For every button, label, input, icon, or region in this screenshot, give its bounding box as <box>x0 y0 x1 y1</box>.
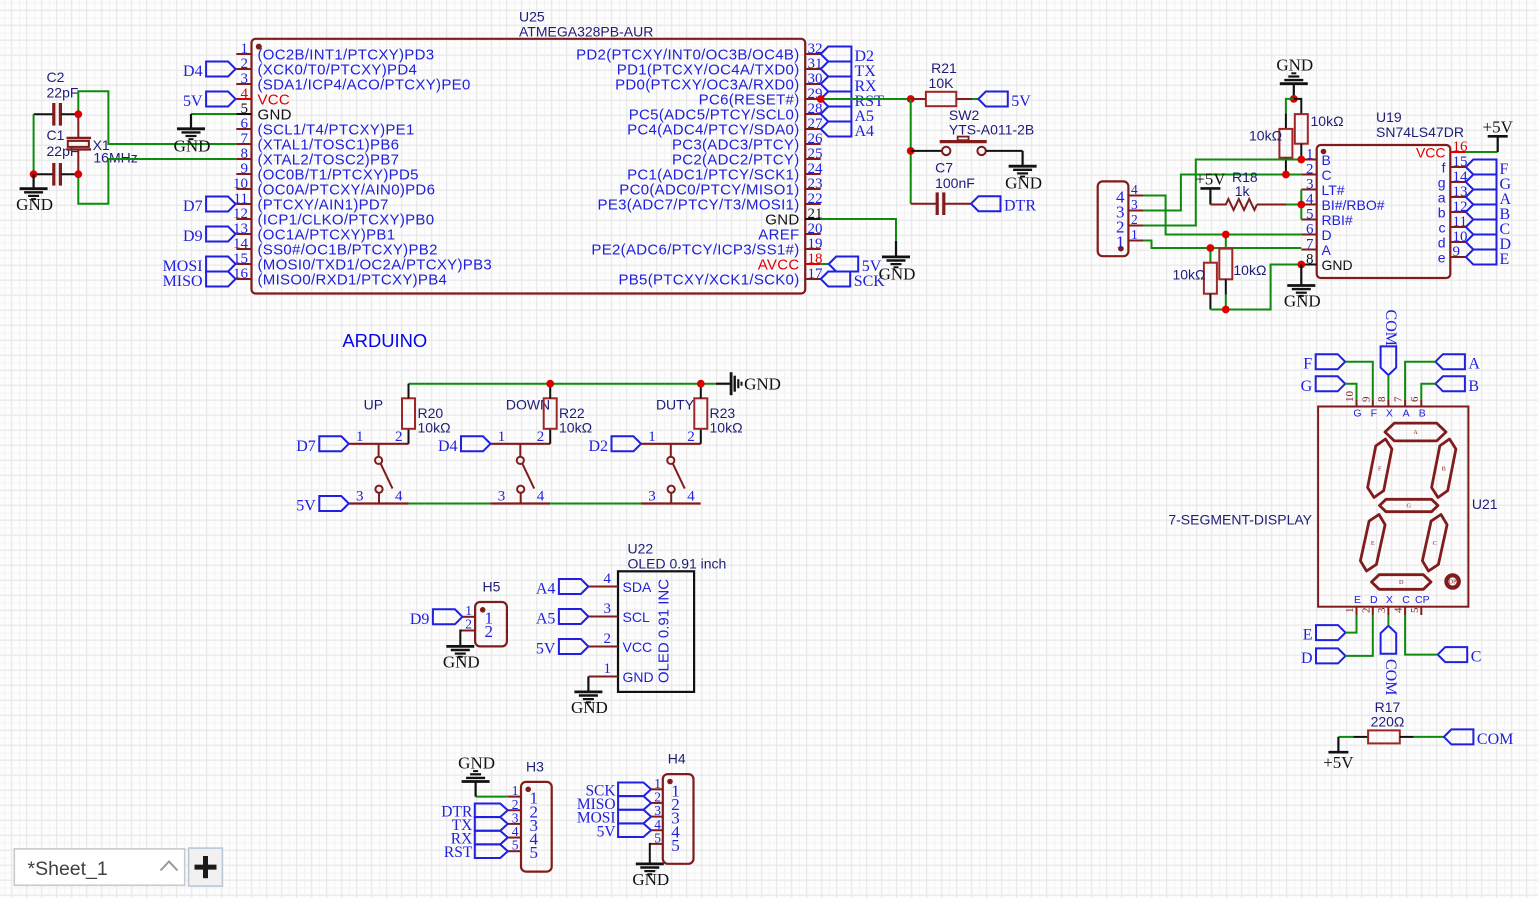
U25 pin 11 (PTCXY/AIN1)PD7 <box>234 191 389 214</box>
ground (crystal) <box>16 174 53 214</box>
svg-text:11: 11 <box>1453 214 1467 230</box>
svg-text:10kΩ: 10kΩ <box>1311 113 1344 129</box>
U21 bottom pin 2 (D) <box>1360 594 1378 615</box>
segment G <box>1380 499 1439 511</box>
junction GND top <box>1290 95 1298 103</box>
switch SW2 YTS-A011-2B <box>911 107 1035 155</box>
svg-text:H4: H4 <box>668 751 686 767</box>
net flag G (U19 pin 14) <box>1466 175 1512 194</box>
wire H3 pin 1 to GND <box>476 796 508 798</box>
wire 5V rail segment 1 <box>409 503 491 505</box>
connector pin 1 <box>1116 227 1144 252</box>
segment F <box>1368 439 1392 498</box>
svg-text:U19: U19 <box>1376 109 1402 125</box>
U25 pin 27 PC4(ADC4/PTCY/SDA0) <box>627 116 823 139</box>
svg-text:10: 10 <box>233 176 248 192</box>
svg-text:1k: 1k <box>1235 183 1251 199</box>
svg-text:8: 8 <box>241 146 249 162</box>
svg-text:D4: D4 <box>183 63 203 80</box>
svg-text:GND: GND <box>623 669 654 685</box>
net flag MISO (U25 pin 16) <box>163 272 236 291</box>
net flag DTR (H3 pin 2) <box>441 803 508 820</box>
svg-text:2: 2 <box>687 429 695 445</box>
svg-text:1: 1 <box>1344 608 1356 614</box>
svg-text:ATMEGA328PB-AUR: ATMEGA328PB-AUR <box>519 24 653 40</box>
wire pull-downs to GND rail <box>1210 265 1301 310</box>
svg-text:SDA: SDA <box>623 579 652 595</box>
net flag 5V (U25 pin 4) <box>183 92 236 111</box>
junction net D pull-down <box>1222 231 1230 239</box>
H3 pin 2 <box>508 797 538 822</box>
svg-text:YTS-A011-2B: YTS-A011-2B <box>949 122 1034 138</box>
svg-text:8: 8 <box>1306 252 1314 268</box>
svg-text:VCC: VCC <box>623 639 653 655</box>
header H4 <box>663 751 694 864</box>
svg-text:OLED 0.91 INC: OLED 0.91 INC <box>656 579 673 683</box>
U25 pin 15 (MOSI0/TXD1/OC2A/PTCXY)PB3 <box>233 251 492 274</box>
junction rail R22 <box>546 380 554 388</box>
svg-text:9: 9 <box>241 161 249 177</box>
svg-text:5: 5 <box>1306 207 1314 223</box>
U25 pin 23 PC0(ADC0/PTCY/MISO1) <box>619 176 822 199</box>
U19 pin 3 LT# <box>1301 177 1344 199</box>
net flag D2 (U25 pin 32) <box>821 47 874 66</box>
svg-text:H5: H5 <box>483 579 501 595</box>
svg-text:1: 1 <box>356 429 364 445</box>
svg-text:25: 25 <box>808 146 823 162</box>
svg-text:2: 2 <box>1131 212 1138 227</box>
U21 bottom pin 1 (E) <box>1344 594 1361 615</box>
svg-text:X: X <box>1386 408 1393 420</box>
svg-text:d: d <box>1438 235 1446 251</box>
svg-text:8: 8 <box>1376 396 1388 402</box>
svg-text:D9: D9 <box>183 228 203 245</box>
U25 pin 30 PD0(PTCXY/OC3A/RXD0) <box>615 71 822 94</box>
svg-text:16: 16 <box>1453 139 1469 155</box>
svg-text:10kΩ: 10kΩ <box>1233 262 1266 278</box>
U21 top pin 7 (A) <box>1393 396 1410 420</box>
svg-text:BI#/RBO#: BI#/RBO# <box>1322 197 1385 213</box>
net flag E (display) <box>1303 615 1357 644</box>
svg-text:GND: GND <box>443 652 480 671</box>
header H5 <box>475 579 507 647</box>
svg-text:A: A <box>1322 242 1332 258</box>
svg-text:21: 21 <box>808 206 823 222</box>
U25 pin 5 GND <box>236 101 291 124</box>
U19 pin 11 c <box>1439 214 1467 236</box>
svg-text:C7: C7 <box>935 159 953 175</box>
svg-text:2: 2 <box>241 56 249 72</box>
svg-text:F: F <box>1371 408 1377 420</box>
ground (U22 GND) <box>571 677 608 717</box>
svg-text:B: B <box>1322 152 1331 168</box>
net flag A5 (U22 SCL) <box>536 609 589 628</box>
svg-text:2: 2 <box>1360 608 1372 614</box>
svg-text:2: 2 <box>465 617 472 632</box>
svg-text:1: 1 <box>1131 227 1138 242</box>
svg-text:1: 1 <box>241 41 249 57</box>
svg-text:C1: C1 <box>47 127 65 143</box>
wire LT#/BI#/RBI# tie (U19 pins 3-5) <box>1300 190 1302 220</box>
svg-text:GND: GND <box>1322 257 1353 273</box>
wire connector pin 4 to U19 D (pin 6) <box>1144 196 1302 235</box>
svg-text:4: 4 <box>395 489 403 505</box>
svg-text:6: 6 <box>241 116 249 132</box>
7-segment display U21 body <box>1168 407 1497 607</box>
svg-text:ARDUINO: ARDUINO <box>342 330 427 351</box>
U19 pin 16 VCC <box>1416 139 1468 161</box>
svg-text:3: 3 <box>648 489 656 505</box>
net flag D9 (H5 pin 1) <box>410 609 463 628</box>
svg-text:A: A <box>1403 408 1410 420</box>
U21 top pin 9 (F) <box>1360 396 1377 420</box>
ground (H3, inverted) <box>458 754 495 797</box>
svg-text:1: 1 <box>1306 147 1314 163</box>
junction rail R23 <box>697 380 705 388</box>
svg-text:D: D <box>1322 227 1332 243</box>
svg-text:5: 5 <box>1409 607 1421 613</box>
U19 pin 7 A <box>1301 237 1331 259</box>
svg-text:5V: 5V <box>296 498 316 515</box>
svg-text:B: B <box>1442 465 1446 472</box>
junction RST at R21 <box>907 95 915 103</box>
U19 pin 10 d <box>1438 229 1468 251</box>
svg-text:A: A <box>1413 429 1418 436</box>
U25 pin 8 (XTAL2/TOSC2)PB7 <box>236 146 399 169</box>
segment A <box>1385 423 1446 441</box>
switch SW UP <box>349 397 409 505</box>
wire RST vertical to SW2/C7 <box>910 99 912 204</box>
H3 pin 5 <box>508 838 538 863</box>
wire GND to U25 pin 5 <box>191 113 236 115</box>
svg-text:+5V: +5V <box>1195 169 1226 188</box>
wire connector pin 2 to U19 B (pin 1) <box>1144 160 1302 226</box>
svg-text:OLED 0.91 inch: OLED 0.91 inch <box>628 556 727 572</box>
segment E <box>1360 515 1385 572</box>
U19 pin 2 C <box>1301 162 1331 184</box>
net flag A4 (U25 pin 27) <box>821 122 874 141</box>
svg-text:6: 6 <box>1306 222 1314 238</box>
svg-text:3: 3 <box>241 71 249 87</box>
net flag SCK (H4 pin 1) <box>585 782 651 799</box>
U25 pin 12 (ICP1/CLKO/PTCXY)PB0 <box>233 206 434 229</box>
wire GND vertical (C2/C1 left) <box>33 114 35 174</box>
svg-text:9: 9 <box>1453 244 1461 260</box>
net flag A (U19 pin 13) <box>1466 190 1512 209</box>
power +5V (R18) <box>1195 169 1226 204</box>
svg-text:E: E <box>1303 627 1313 644</box>
U19 pin 4 BI#/RBO# <box>1301 192 1384 214</box>
wire H4 pin 5 to GND <box>650 844 651 864</box>
wire GND rail (switch pull-ups) <box>409 384 716 444</box>
wire XTAL2 net (C1 to U25 pin 8) <box>78 159 236 204</box>
U25 pin 31 PD1(PTCXY/OC4A/TXD0) <box>617 56 823 79</box>
power +5V (U19 pin 16) <box>1466 117 1514 152</box>
svg-text:5V: 5V <box>183 93 203 110</box>
svg-text:A4: A4 <box>536 581 556 598</box>
svg-text:G: G <box>1353 408 1361 420</box>
svg-text:D7: D7 <box>183 198 203 215</box>
decimal point DP <box>1446 575 1458 587</box>
H4 pin 1 <box>651 776 680 801</box>
U25 pin 2 (XCK0/T0/PTCXY)PD4 <box>236 56 417 79</box>
svg-text:D: D <box>1370 594 1378 606</box>
svg-text:SCL: SCL <box>623 609 650 625</box>
svg-text:F: F <box>1378 465 1382 472</box>
svg-text:4: 4 <box>241 86 249 102</box>
ground (U19 pin 8) <box>1284 265 1321 311</box>
svg-text:26: 26 <box>808 131 824 147</box>
svg-text:GND: GND <box>16 195 53 214</box>
U19 pin 14 g <box>1438 169 1468 191</box>
junction C1-GND <box>30 170 38 178</box>
svg-text:10: 10 <box>1344 391 1356 403</box>
svg-text:24: 24 <box>808 161 824 177</box>
capacitor C7 100nF <box>911 159 975 215</box>
U21 bottom pin 3 (X) <box>1376 594 1393 615</box>
svg-text:20: 20 <box>808 221 823 237</box>
svg-text:22pF: 22pF <box>47 143 79 159</box>
U25 pin 20 AREF <box>758 221 822 244</box>
svg-text:5: 5 <box>671 836 680 855</box>
svg-text:b: b <box>1438 205 1446 221</box>
U25 pin 28 PC5(ADC5/PTCY/SCL0) <box>629 101 823 124</box>
svg-text:10kΩ: 10kΩ <box>418 420 451 436</box>
svg-text:10kΩ: 10kΩ <box>1249 128 1282 144</box>
svg-text:4: 4 <box>1306 192 1314 208</box>
net flag D7 (switch UP) <box>296 436 349 455</box>
switch SW DOWN <box>491 397 551 505</box>
svg-text:4: 4 <box>1131 182 1138 197</box>
svg-text:G: G <box>1301 378 1313 395</box>
net flag D (U19 pin 10) <box>1466 235 1511 254</box>
svg-text:GND: GND <box>632 870 669 889</box>
svg-text:3: 3 <box>1306 177 1314 193</box>
H3 pin 3 <box>508 810 538 835</box>
net flag F (display) <box>1303 354 1373 400</box>
segment C <box>1422 515 1447 572</box>
svg-text:2: 2 <box>395 429 403 445</box>
junction rail D <box>1222 306 1230 314</box>
svg-text:e: e <box>1438 250 1446 266</box>
svg-text:E: E <box>1500 251 1510 268</box>
U25 pin 7 (XTAL1/TOSC1)PB6 <box>236 131 399 154</box>
svg-text:1: 1 <box>498 429 506 445</box>
ground (switch rail, rotated) <box>716 372 781 395</box>
svg-text:B: B <box>1419 408 1426 420</box>
connector pin 2 <box>1116 212 1144 237</box>
junction RST at pin 29 <box>817 95 825 103</box>
svg-text:RBI#: RBI# <box>1322 212 1353 228</box>
svg-text:4: 4 <box>604 571 612 587</box>
ground (U25 pin 21) <box>879 241 916 284</box>
U25 pin 18 AVCC <box>758 251 823 274</box>
svg-text:7: 7 <box>241 131 249 147</box>
resistor R20 10kΩ <box>402 384 451 444</box>
wire 5V rail segment 2 <box>550 503 641 505</box>
svg-text:D7: D7 <box>296 438 316 455</box>
capacitor C2 22pF <box>34 69 79 126</box>
svg-text:PB5(PTCXY/XCK1/SCK0): PB5(PTCXY/XCK1/SCK0) <box>618 272 799 289</box>
svg-text:5: 5 <box>654 830 661 845</box>
U25 pin 17 PB5(PTCXY/XCK1/SCK0) <box>618 266 823 289</box>
net flag 5V (U25 pin 18 AVCC) <box>821 257 882 276</box>
svg-text:3: 3 <box>498 489 506 505</box>
svg-text:f: f <box>1442 160 1446 176</box>
net flag 5V (switch bottom rail) <box>296 496 349 515</box>
svg-text:6: 6 <box>1409 396 1421 402</box>
svg-text:22: 22 <box>808 191 823 207</box>
svg-text:4: 4 <box>537 489 545 505</box>
U19 pin 9 e <box>1438 244 1466 266</box>
net flag B (U19 pin 12) <box>1466 205 1510 224</box>
resistor 10kΩ (pull-up to net B) <box>1294 99 1344 160</box>
svg-text:C: C <box>1322 167 1332 183</box>
U19 pin 5 RBI# <box>1301 207 1353 229</box>
net flag D4 (U25 pin 2) <box>183 62 236 81</box>
U25 pin 4 VCC <box>236 86 290 109</box>
header H3 <box>521 758 552 871</box>
svg-text:U21: U21 <box>1472 496 1498 512</box>
net flag E (U19 pin 9) <box>1466 250 1509 269</box>
net flag F (U19 pin 15) <box>1466 160 1509 179</box>
svg-text:4: 4 <box>687 489 695 505</box>
net flag C (U19 pin 11) <box>1466 220 1510 239</box>
svg-text:+5V: +5V <box>1323 753 1354 772</box>
U25 pin 21 GND <box>765 206 822 229</box>
H4 pin 3 <box>651 803 680 828</box>
svg-text:2: 2 <box>537 429 545 445</box>
svg-text:1: 1 <box>1116 233 1125 252</box>
svg-text:5: 5 <box>530 843 539 862</box>
ground (U25 pin 5) <box>174 114 211 155</box>
U25 pin 6 (SCL1/T4/PTCXY)PE1 <box>236 116 414 139</box>
svg-text:VCC: VCC <box>1416 145 1446 161</box>
svg-text:*Sheet_1: *Sheet_1 <box>28 858 108 880</box>
wire RST net (pin 29 to R21) <box>821 98 911 100</box>
svg-text:GND: GND <box>458 754 495 773</box>
U25 pin 19 PE2(ADC6/PTCY/ICP3/SS1#) <box>591 236 822 259</box>
svg-text:GND: GND <box>744 375 781 394</box>
U25 pin 29 PC6(RESET#) <box>699 86 823 109</box>
svg-text:MISO: MISO <box>163 273 203 290</box>
svg-text:2: 2 <box>604 631 612 647</box>
svg-text:X: X <box>1386 594 1393 606</box>
H3 pin 1 <box>508 783 538 808</box>
svg-text:10kΩ: 10kΩ <box>559 420 592 436</box>
net flag D9 (U25 pin 13) <box>183 227 236 246</box>
U25 pin 3 (SDA1/ICP4/ACO/PTCXY)PE0 <box>236 71 470 94</box>
svg-text:COM: COM <box>1477 731 1513 748</box>
junction net A pull-down <box>1207 244 1215 252</box>
svg-text:A5: A5 <box>536 611 556 628</box>
svg-text:3: 3 <box>604 601 612 617</box>
svg-text:CP: CP <box>1415 594 1430 606</box>
crystal X1 16MHz <box>67 114 138 174</box>
svg-text:GND: GND <box>1005 174 1042 193</box>
U25 pin 26 PC3(ADC3/PTCY) <box>672 131 823 154</box>
svg-text:16MHz: 16MHz <box>93 150 137 166</box>
svg-text:10kΩ: 10kΩ <box>1172 267 1205 283</box>
H4 pin 2 <box>651 789 680 814</box>
connector pin 4 <box>1116 182 1144 207</box>
U21 top pin 6 (B) <box>1409 396 1426 420</box>
svg-text:9: 9 <box>1360 396 1372 402</box>
svg-text:7: 7 <box>1306 237 1314 253</box>
net flag MISO (H4 pin 2) <box>577 796 651 813</box>
svg-text:GND: GND <box>1276 56 1313 75</box>
U25 pin 13 (OC1A/PTCXY)PB1 <box>233 221 395 244</box>
U25 pin 16 (MISO0/RXD1/PTCXY)PB4 <box>233 266 447 289</box>
ground (H4) <box>632 864 669 889</box>
ground (SW2) <box>1005 151 1042 193</box>
net flag DTR (C7) <box>971 196 1036 215</box>
net flag COM (R17) <box>1444 729 1513 748</box>
resistor R17 220Ω <box>1338 699 1444 743</box>
svg-text:(MISO0/RXD1/PTCXY)PB4: (MISO0/RXD1/PTCXY)PB4 <box>258 272 448 289</box>
svg-text:10kΩ: 10kΩ <box>710 420 743 436</box>
power +5V (R17) <box>1323 737 1354 772</box>
net flag A (display) <box>1405 354 1480 400</box>
svg-text:U25: U25 <box>519 9 545 25</box>
U25 pin 14 (SS0#/OC1B/PTCXY)PB2 <box>233 236 438 259</box>
svg-text:LT#: LT# <box>1322 182 1345 198</box>
ground (H5) <box>443 646 480 671</box>
junction RST-SW2 <box>907 147 915 155</box>
U19 pin 8 GND <box>1301 252 1352 274</box>
svg-text:RST: RST <box>444 844 473 861</box>
svg-text:SCK: SCK <box>854 273 886 290</box>
svg-text:DTR: DTR <box>1004 198 1036 215</box>
svg-text:COM: COM <box>1382 310 1399 346</box>
resistor R22 10kΩ <box>544 384 592 444</box>
net flag COM (display bottom) <box>1381 615 1399 695</box>
svg-text:100nF: 100nF <box>935 175 975 191</box>
net flag A4 (U22 SDA) <box>536 579 589 598</box>
net flag 5V (R21) <box>978 92 1031 111</box>
svg-text:GND: GND <box>1284 292 1321 311</box>
svg-text:23: 23 <box>808 176 823 192</box>
U22 pin 3 SCL <box>588 601 650 625</box>
U25 pin 1 (OC2B/INT1/PTCXY)PD3 <box>236 41 434 64</box>
svg-text:A4: A4 <box>855 123 875 140</box>
net flag A5 (U25 pin 28) <box>821 107 874 126</box>
svg-text:22pF: 22pF <box>47 85 79 101</box>
U25 pin 32 PD2(PTCXY/INT0/OC3B/OC4B) <box>576 41 822 64</box>
net flag 5V (H4 pin 4) <box>597 823 651 840</box>
U19 pin 15 f <box>1442 154 1468 176</box>
U21 top pin 8 (X) <box>1376 396 1393 420</box>
text ARDUINO <box>342 330 427 351</box>
svg-text:g: g <box>1438 175 1446 191</box>
svg-text:E: E <box>1354 594 1361 606</box>
U21 bottom pin 5 (CP) <box>1409 594 1430 615</box>
U19 pin 12 b <box>1438 199 1468 221</box>
wire H5 pin 2 to GND <box>460 631 462 647</box>
net flag TX (H3 pin 3) <box>452 817 508 834</box>
svg-text:DUTY: DUTY <box>656 397 695 413</box>
svg-text:D9: D9 <box>410 611 430 628</box>
svg-text:SN74LS47DR: SN74LS47DR <box>1376 124 1464 140</box>
svg-text:D2: D2 <box>588 438 608 455</box>
svg-text:B: B <box>1468 378 1479 395</box>
svg-text:3: 3 <box>356 489 364 505</box>
junction net C pull-up <box>1282 171 1290 179</box>
svg-text:GND: GND <box>174 136 211 155</box>
junction C2-X1 <box>74 110 82 118</box>
svg-text:7: 7 <box>1393 396 1405 402</box>
svg-text:1: 1 <box>648 429 656 445</box>
